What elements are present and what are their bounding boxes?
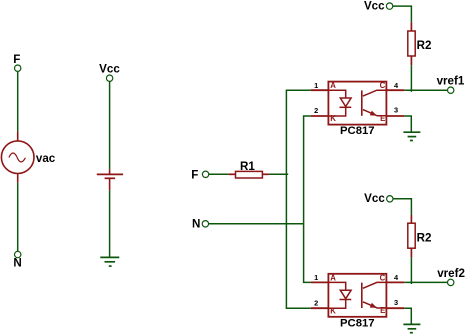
svg-text:vac: vac: [36, 152, 56, 165]
terminal vref2: [437, 267, 465, 285]
svg-text:1: 1: [314, 273, 318, 282]
svg-text:3: 3: [394, 298, 398, 307]
wire U1 pin4 to vref1: [404, 89, 447, 91]
wire R2 to vref1 node: [410, 65, 412, 92]
wire R2 to vref2 node: [410, 257, 412, 284]
AC source vac: [1, 132, 55, 183]
svg-text:R2: R2: [417, 39, 432, 52]
power terminal Vcc (left): [99, 63, 120, 82]
svg-text:Vcc: Vcc: [364, 0, 385, 12]
svg-text:N: N: [13, 257, 21, 270]
svg-text:vref2: vref2: [437, 267, 465, 280]
svg-text:R1: R1: [240, 160, 255, 173]
power terminal Vcc (bottom right): [364, 192, 393, 205]
resistor R2 (bottom): [408, 215, 432, 257]
ground (left): [100, 257, 119, 266]
svg-text:R2: R2: [417, 231, 432, 244]
terminal N (input): [192, 218, 209, 231]
terminal F (left): [13, 53, 21, 72]
ground (bottom right): [403, 324, 420, 332]
terminal vref1: [437, 75, 465, 94]
svg-text:Vcc: Vcc: [99, 63, 120, 76]
power terminal Vcc (top right): [364, 0, 393, 12]
wire Vcc to R2 (bottom): [393, 199, 411, 215]
wire Vcc to R2 (top): [393, 6, 412, 22]
wire U2 pin4 to vref2: [404, 281, 447, 283]
svg-text:PC817: PC817: [340, 125, 375, 137]
svg-text:C: C: [380, 273, 386, 282]
wire battery to ground: [109, 190, 111, 256]
wire U1 pin3 to ground: [404, 116, 411, 132]
optocoupler U1 PC817: [311, 81, 404, 124]
optocoupler U2 PC817: [311, 273, 404, 316]
wire F to R1: [209, 173, 229, 175]
terminal N (left): [13, 251, 21, 269]
svg-text:A: A: [330, 273, 336, 282]
wire R1 to node: [269, 173, 288, 175]
svg-text:F: F: [13, 53, 20, 66]
wire F to vac: [17, 72, 19, 132]
wire N to node: [209, 223, 304, 225]
battery cell: [97, 169, 123, 190]
resistor R2 (top): [408, 22, 432, 65]
svg-text:C: C: [380, 81, 386, 90]
wire node N to U1 pin2 and U2 pin1: [304, 116, 311, 282]
svg-text:2: 2: [314, 298, 318, 307]
wire Vcc to battery: [109, 82, 111, 170]
svg-text:2: 2: [314, 106, 318, 115]
svg-text:Vcc: Vcc: [364, 192, 385, 205]
ground (top right): [403, 132, 420, 140]
terminal F (input): [191, 168, 209, 181]
svg-text:PC817: PC817: [340, 317, 375, 329]
wire U2 pin3 to ground: [404, 308, 411, 324]
svg-text:A: A: [330, 81, 336, 90]
resistor R1: [229, 160, 269, 178]
svg-text:F: F: [191, 168, 198, 181]
svg-text:3: 3: [394, 106, 398, 115]
svg-text:vref1: vref1: [437, 75, 465, 88]
wire node F to U1 pin1 and U2 pin2: [286, 90, 311, 308]
wire vac to N: [17, 183, 19, 252]
svg-text:N: N: [192, 218, 200, 231]
svg-text:1: 1: [314, 81, 318, 90]
